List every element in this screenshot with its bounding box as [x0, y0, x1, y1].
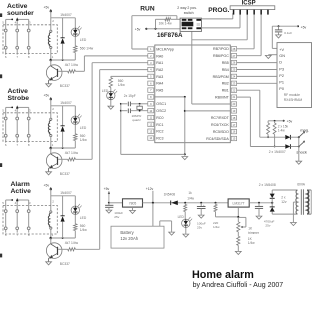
pin 10 OSC2 — [148, 108, 166, 113]
relay K2 contact column 2 — [16, 107, 19, 142]
pin 18 RC7/RXDT — [211, 116, 237, 121]
svg-text:RF module: RF module — [284, 93, 300, 97]
svg-text:PROG.: PROG. — [208, 7, 229, 14]
wire ICSP pin4 PGD to RB7 — [237, 15, 255, 49]
svg-text:1/4w: 1/4w — [80, 228, 88, 232]
wire MCLR to run switch — [132, 16, 177, 49]
relay K3 armature links and arrow — [6, 198, 29, 201]
wire coil pin 1 down to collector node (section 1) — [50, 49, 52, 60]
label 560 1/4w (section 1) — [80, 47, 94, 51]
svg-text:+5v: +5v — [287, 119, 293, 123]
+12v supply symbol — [146, 187, 154, 204]
svg-text:switch: switch — [184, 11, 194, 15]
svg-text:MCLR/Vpp: MCLR/Vpp — [156, 47, 174, 51]
svg-text:RB3/PGM: RB3/PGM — [213, 75, 229, 79]
wire RF GND — [268, 54, 277, 56]
svg-text:GN: GN — [279, 54, 285, 58]
svg-text:25v: 25v — [197, 225, 202, 229]
pin 13 RC2 — [148, 129, 164, 134]
node collector junction (section 1) — [50, 59, 53, 62]
svg-text:1/4w: 1/4w — [187, 196, 194, 200]
wire coil pin 1 down to collector node (section 2) — [50, 137, 52, 148]
wire flyback branch bottom (section 2) — [51, 147, 76, 149]
section title 'Active sounder' — [7, 3, 34, 17]
capacitor 4700uF 25v — [255, 203, 263, 216]
svg-text:Battery: Battery — [120, 230, 134, 235]
wire RA0 to Q1 base — [75, 56, 147, 71]
pin 8 (nc) — [148, 95, 154, 99]
label 1K 1/4w — [248, 237, 255, 245]
svg-text:+V: +V — [279, 48, 284, 52]
svg-text:1N4007: 1N4007 — [60, 191, 72, 195]
svg-text:RA1: RA1 — [156, 61, 163, 65]
svg-text:0.1uF: 0.1uF — [284, 31, 292, 35]
pin 9 OSC1 — [148, 102, 166, 107]
svg-text:P3: P3 — [279, 67, 284, 71]
svg-text:1/4w: 1/4w — [118, 83, 126, 87]
svg-text:2 x 1N4007: 2 x 1N4007 — [269, 150, 286, 154]
pin 3 RA1 — [148, 61, 164, 66]
wire ICSP pin3 to Vdd rail — [192, 13, 247, 40]
capacitor 100uF 25v input — [197, 202, 206, 215]
label 20MHz quartz — [132, 114, 142, 122]
svg-text:12v 20Ah: 12v 20Ah — [120, 236, 138, 241]
relay K1 contact column 2 — [16, 19, 19, 54]
svg-text:+5v: +5v — [44, 94, 50, 98]
svg-text:shock: shock — [296, 149, 306, 154]
pin 14 RC3 — [148, 136, 164, 141]
wire power LED to ground — [185, 228, 187, 234]
diode D3 1N4007 flyback — [61, 196, 65, 238]
pin 28 RB7/PGD — [213, 47, 237, 52]
svg-text:1/4w: 1/4w — [248, 241, 255, 245]
svg-text:1/4w: 1/4w — [80, 138, 88, 142]
resistor 1k to power LED — [184, 202, 187, 219]
capacitor C2 15pF — [120, 109, 148, 114]
resistor 560 1/4w (section 1) — [74, 36, 77, 60]
wire ICSP pin5 PGC to RB6 — [237, 15, 262, 56]
svg-text:+12v: +12v — [146, 187, 154, 191]
pin 4 RA2 — [148, 67, 164, 72]
wire 220 to LM317 ADJ — [216, 216, 239, 218]
label 100uF 25v (input) — [197, 221, 206, 229]
relay K2 contact column 3 — [27, 107, 30, 142]
pin 17 RC6/TXCK — [211, 123, 237, 128]
wire RB0 to shock sensor — [237, 97, 251, 146]
pin 24 RB3/PGM — [213, 74, 237, 79]
svg-text:1N4007: 1N4007 — [60, 13, 72, 17]
svg-text:1-4w: 1-4w — [278, 129, 286, 133]
svg-text:P0: P0 — [279, 87, 284, 91]
ground below 4700uF — [256, 216, 262, 219]
resistor 15k pull-up mag — [267, 123, 270, 134]
pin 21 RB0/INT — [215, 95, 237, 100]
+5v supply symbol (section 2) — [44, 94, 53, 101]
wire 15k to shock line — [274, 134, 276, 147]
svg-text:sounder: sounder — [7, 10, 34, 17]
node collector junction (section 3) — [50, 237, 53, 240]
pin 20 (nc) — [231, 102, 236, 106]
svg-text:1N4007: 1N4007 — [60, 101, 72, 105]
svg-text:RB0/INT: RB0/INT — [215, 96, 230, 100]
wire flyback branch top (section 2) — [51, 105, 76, 107]
label 100uF 25v (output) — [114, 211, 123, 219]
pin 23 RB2 — [222, 81, 237, 86]
wire crystal ground bus — [120, 103, 122, 154]
pin 15 RC4/SDI/SDA — [206, 136, 236, 141]
+5v supply at sensor pull-ups — [283, 119, 293, 123]
resistor 15k pull-up shock — [273, 123, 276, 134]
wire 7805 input rail — [143, 202, 229, 204]
LED power indicator — [182, 219, 190, 227]
+5v supply output — [104, 187, 110, 204]
label RF module RX4SHRAM — [284, 93, 303, 102]
svg-text:LM317T: LM317T — [233, 202, 245, 206]
ground below 0.1uF — [276, 35, 282, 38]
wire secondary top tap — [272, 189, 297, 191]
svg-text:25v: 25v — [114, 215, 119, 219]
ground below Q3 — [46, 262, 52, 265]
diode D2 1N4007 flyback — [61, 106, 65, 148]
wire +5v to relay coil pin 2 (section 2) — [50, 99, 52, 118]
wire LM317 ADJ down — [237, 207, 239, 222]
svg-text:D: D — [279, 61, 282, 65]
pin 19 (nc) — [231, 109, 236, 113]
svg-text:LED: LED — [80, 38, 87, 42]
ground below RA3 LED — [108, 106, 114, 109]
relay K2 coil — [48, 118, 52, 136]
svg-text:RA0: RA0 — [156, 54, 163, 58]
switch S1 jumper block — [180, 18, 201, 31]
svg-text:BC337: BC337 — [60, 262, 70, 266]
relay K3 contact column 2 — [16, 200, 19, 233]
ground below Q1 — [46, 84, 52, 87]
regulator U4 LM317T — [228, 199, 249, 207]
wire RA3 to status LED resistor — [111, 76, 148, 77]
label 560 1/4w (section 2) — [80, 134, 88, 142]
svg-text:LED: LED — [80, 126, 87, 130]
relay K3 contact column 1 — [4, 200, 7, 233]
svg-text:RC0: RC0 — [156, 116, 163, 120]
capacitor 100uF 25v output — [105, 203, 113, 210]
wire Vss pin8 to ground bus — [154, 96, 186, 154]
diode 1N4007 mag — [260, 135, 299, 140]
pin 1 MCLR/Vpp — [148, 47, 174, 52]
pin 27 RB6/PGC — [213, 54, 237, 59]
label 560 1/4w (RA3) — [118, 79, 126, 87]
pin 11 RC0 — [148, 115, 164, 120]
wire switch to ICSP pin2 — [202, 13, 241, 28]
scan mark 4 — [0, 254, 2, 258]
wire secondary bottom tap — [272, 213, 297, 215]
scan mark 1 — [0, 13, 2, 17]
svg-text:560 1/4w: 560 1/4w — [80, 47, 94, 51]
pin 6 RA4 — [148, 81, 164, 86]
svg-text:RUN: RUN — [140, 6, 155, 13]
relay K3 pin numbers top — [2, 200, 54, 205]
svg-text:P2: P2 — [279, 74, 284, 78]
ground below power LED — [183, 234, 189, 237]
+5v supply at RF module — [297, 25, 306, 29]
svg-text:RA3: RA3 — [156, 75, 163, 79]
+5v supply symbol (section 1) — [44, 6, 53, 13]
wire ground bus to crystal area — [121, 153, 185, 155]
wire sensors common to ground — [298, 137, 300, 161]
+5v supply at 10k pull-up — [135, 27, 148, 31]
svg-text:RB7/PGD: RB7/PGD — [213, 47, 229, 51]
label 2 x 12v — [281, 196, 287, 204]
transistor Q1 BC337 — [46, 60, 62, 84]
svg-text:2 x 1N5408: 2 x 1N5408 — [259, 183, 276, 187]
svg-text:P1: P1 — [279, 81, 284, 85]
relay K3 coil — [48, 211, 52, 229]
trimmer wiper loop — [238, 217, 246, 228]
svg-text:+5v: +5v — [44, 184, 50, 188]
ground center tap — [291, 223, 297, 226]
wire RB5 to RF D — [237, 62, 277, 64]
pin 26 RB5 — [222, 60, 237, 65]
resistor 1K 1/4w to ground — [237, 232, 240, 251]
relay K3 pin numbers bottom — [5, 233, 54, 237]
resistor 220 1/4w — [214, 202, 217, 217]
svg-text:RA4: RA4 — [156, 82, 163, 86]
wire Vss pin19 — [184, 110, 231, 112]
relay K1 armature links and arrow — [6, 17, 29, 20]
svg-text:16F876A: 16F876A — [157, 32, 183, 39]
pin 25 RB4 — [222, 67, 237, 72]
pin 5 RA3 — [148, 74, 164, 79]
svg-text:RB6/PGC: RB6/PGC — [213, 54, 229, 58]
LED on RA3 — [107, 87, 117, 106]
resistor 560 1/4w (section 3) — [74, 214, 77, 238]
relay K3 contact column 3 — [27, 200, 30, 233]
svg-text:12v: 12v — [281, 200, 287, 204]
svg-text:LED: LED — [80, 216, 87, 220]
ground below input cap — [198, 215, 204, 218]
resistor 4k7 base (section 2) — [58, 158, 75, 161]
svg-text:1N5408: 1N5408 — [164, 192, 176, 196]
node collector junction (section 2) — [50, 147, 53, 150]
wire +5v to RF +V — [272, 26, 298, 48]
svg-text:quartz: quartz — [132, 118, 141, 122]
relay K1 contact column 1 — [4, 19, 7, 54]
ground at RF GND — [265, 55, 271, 58]
label Battery 12v 20Ah — [120, 230, 138, 241]
wire flyback branch bottom (section 3) — [51, 237, 76, 239]
+5v supply symbol (section 3) — [44, 184, 53, 191]
scan mark 2 — [0, 74, 2, 78]
relay K1 coil — [48, 30, 52, 48]
capacitor 0.1uF at RF module — [275, 25, 282, 34]
switch contact shock — [298, 141, 305, 148]
resistor 560 1/4w on RA3 — [109, 78, 112, 88]
svg-text:OSC1: OSC1 — [156, 102, 166, 106]
relay K1 dashed box — [3, 25, 57, 54]
relay K2 pin numbers bottom — [5, 143, 54, 147]
label 2 way 2 pos. switch — [177, 6, 197, 15]
wire center tap to ground — [293, 202, 297, 222]
wire battery positive — [152, 203, 154, 226]
relay K2 dashed box — [3, 113, 57, 142]
resistor 4k7 base (section 3) — [58, 248, 75, 251]
ground below sensors — [296, 161, 302, 164]
LED indicator (section 1) — [71, 18, 81, 37]
svg-text:LED: LED — [178, 215, 185, 219]
wire switch to ICSP pin1 Vpp — [202, 13, 233, 19]
svg-text:60VA: 60VA — [297, 182, 306, 186]
wire flyback branch top (section 1) — [51, 17, 76, 19]
section title 'Alarm Active' — [11, 181, 32, 195]
relay K2 armature links and arrow — [6, 105, 29, 108]
svg-text:10k 1-4w: 10k 1-4w — [159, 22, 173, 26]
node rectifier output — [271, 202, 273, 204]
wire +5v to switch — [146, 28, 180, 30]
svg-text:OSC2: OSC2 — [156, 109, 166, 113]
wire RB3 to RF P2 — [237, 75, 277, 77]
svg-text:Active: Active — [11, 188, 32, 195]
ground battery negative — [169, 232, 175, 235]
section title 'Active Strobe' — [8, 88, 30, 102]
pin 7 RA5 — [148, 88, 164, 93]
svg-text:2 way 2 pos.: 2 way 2 pos. — [177, 6, 197, 10]
transformer T1 — [296, 189, 311, 215]
wire RB4 to RF P3 — [237, 69, 277, 71]
ground below 7805 — [130, 207, 136, 213]
svg-text:RB4: RB4 — [222, 68, 229, 72]
regulator U3 7805 — [123, 199, 143, 207]
ground below trimmer chain — [235, 251, 241, 254]
wire flyback branch bottom (section 1) — [51, 59, 76, 61]
resistor 4k7 base (section 1) — [58, 70, 75, 73]
wire C1 to OSC1 — [140, 103, 148, 105]
wire RA2 to Q3 base — [75, 70, 147, 250]
svg-text:+5v: +5v — [104, 187, 110, 191]
resistor R 10k 1-4w — [156, 18, 181, 29]
svg-text:4k7 1/4w: 4k7 1/4w — [65, 63, 79, 67]
diode rectifier top 1N5408 — [270, 190, 275, 203]
svg-text:RC4/SDI/SDA: RC4/SDI/SDA — [206, 137, 229, 141]
wire +5v rail to 7805 — [109, 202, 123, 204]
battery B1 12v 20Ah box — [111, 226, 164, 248]
svg-text:RB5: RB5 — [222, 61, 229, 65]
pin 22 RB1 — [222, 88, 237, 93]
svg-text:1k: 1k — [188, 191, 192, 195]
wire Vdd pin20 up to switch — [192, 31, 231, 104]
wire RB1 to mag sensor — [237, 90, 260, 137]
ground below U1 — [182, 157, 188, 160]
relay K3 dashed box — [3, 205, 57, 234]
scan mark 3 — [0, 163, 2, 167]
svg-text:RA5: RA5 — [156, 89, 163, 93]
wire +5v to pull-ups — [268, 120, 284, 123]
resistor 560 1/4w (section 2) — [74, 124, 77, 148]
pin 16 RC5/SDO — [213, 129, 237, 134]
diode 1N4007 shock — [250, 144, 298, 149]
svg-text:Home alarm: Home alarm — [192, 269, 254, 281]
IC U1 16F876A body — [155, 45, 231, 143]
svg-text:RC3: RC3 — [156, 136, 163, 140]
svg-text:Strobe: Strobe — [8, 95, 30, 102]
crystal X1 20MHz — [137, 103, 142, 112]
transistor Q2 BC337 — [46, 148, 62, 172]
module U2 RF receiver box — [277, 43, 312, 108]
relay K2 contact column 1 — [4, 107, 7, 142]
svg-text:RX4SHRAM: RX4SHRAM — [284, 98, 303, 102]
svg-text:RC6/TXCK: RC6/TXCK — [211, 123, 229, 127]
svg-text:+5v: +5v — [301, 25, 307, 29]
label 2 x 15k 1-4w — [278, 125, 289, 133]
svg-text:RC7/RXDT: RC7/RXDT — [211, 116, 230, 120]
diode 1N5408 on rail — [171, 201, 178, 206]
label 560 1/4w (section 3) — [80, 224, 88, 232]
switch contact mag — [298, 131, 305, 138]
trimmer 1K — [237, 222, 240, 232]
connector J1 ICSP header — [230, 6, 275, 15]
svg-text:by Andrea Ciuffoli - Aug 2007: by Andrea Ciuffoli - Aug 2007 — [193, 282, 284, 289]
transistor Q3 BC337 — [46, 238, 62, 262]
svg-text:4k7 1/4w: 4k7 1/4w — [65, 151, 79, 155]
pin 12 RC1 — [148, 122, 164, 127]
label 4700uF 25v — [264, 220, 275, 228]
svg-text:RB1: RB1 — [222, 89, 229, 93]
relay K1 pin numbers top — [2, 19, 54, 24]
wire flyback branch top (section 3) — [51, 195, 76, 197]
wire RA1 to Q2 base — [75, 63, 147, 160]
relay K2 pin numbers top — [2, 107, 54, 112]
wire 15k to mag line — [267, 134, 269, 138]
ground below Q2 — [46, 172, 52, 175]
svg-text:RC1: RC1 — [156, 123, 163, 127]
svg-text:RB2: RB2 — [222, 82, 229, 86]
wire +5v to relay coil pin 2 (section 3) — [50, 189, 52, 211]
svg-text:1/4w: 1/4w — [213, 225, 220, 229]
svg-text:2x 15pF: 2x 15pF — [124, 94, 136, 98]
label 220 1/4w — [213, 221, 220, 229]
wire coil pin 1 down to collector node (section 3) — [50, 229, 52, 238]
wire RB2 to RF P1 — [237, 82, 277, 84]
svg-text:4k7 1/4w: 4k7 1/4w — [65, 241, 79, 245]
wire battery negative to ground — [160, 221, 172, 232]
LED indicator (section 2) — [71, 106, 81, 125]
wire LM317 input rail — [249, 202, 272, 204]
svg-text:25v: 25v — [265, 224, 270, 228]
relay K1 pin numbers bottom — [5, 55, 54, 59]
svg-text:RC5/SDO: RC5/SDO — [213, 130, 229, 134]
svg-text:+5v: +5v — [135, 27, 141, 31]
label 1k 1/4w (LED) — [187, 191, 194, 201]
ground below output cap — [106, 210, 112, 213]
svg-text:BC337: BC337 — [60, 172, 70, 176]
RF module pin labels — [279, 48, 285, 91]
svg-text:+5v: +5v — [44, 6, 50, 10]
svg-text:trimmer: trimmer — [248, 231, 260, 235]
svg-text:7805: 7805 — [129, 202, 137, 206]
svg-text:RA2: RA2 — [156, 68, 163, 72]
relay K1 contact column 3 — [27, 19, 30, 54]
pin 2 RA0 — [148, 54, 164, 59]
wire +5v to relay coil pin 2 (section 1) — [50, 11, 52, 30]
svg-text:RC2: RC2 — [156, 130, 163, 134]
svg-text:BC337: BC337 — [60, 84, 70, 88]
capacitor C1 15pF — [120, 102, 140, 107]
diode rectifier bottom 1N5408 — [270, 203, 275, 214]
node ground junction under U1 — [184, 153, 186, 155]
diode D1 1N4007 flyback — [61, 18, 65, 60]
LED indicator (section 3) — [71, 196, 81, 215]
label 1K trimmer — [248, 227, 260, 235]
